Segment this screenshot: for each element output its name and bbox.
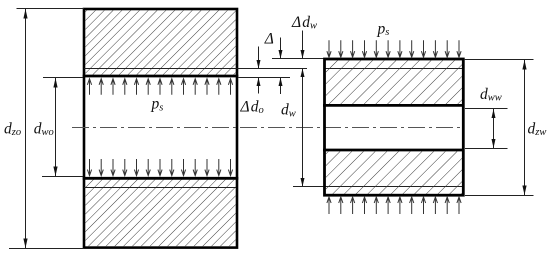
left cylinder outline (84, 9, 237, 248)
dimension d_w line shared with delta-d_w lower arrow (301, 69, 305, 187)
dimension d_ww extension line bottom (465, 148, 508, 150)
dimension delta (total) with outside arrows (279, 38, 283, 95)
pressure arrows down on right piston top (327, 40, 461, 57)
dimension d_zo line with arrowheads (23, 9, 27, 249)
axis centerline (72, 127, 465, 129)
left cylinder worn bore surface top (thick) (83, 75, 239, 78)
right piston original surface top (thin) (326, 68, 464, 70)
dimension d_ww line with arrowheads (492, 109, 496, 149)
left cylinder worn bore surface bottom (thick) (83, 177, 239, 180)
right piston inner edge top (thick) (323, 104, 465, 107)
dimension d_zw line with arrowheads (522, 60, 526, 196)
dimension d_zo extension line top (17, 8, 85, 10)
left original bore line top (thin, extended right) (84, 68, 307, 70)
dimension d_zo extension line bottom (9, 248, 84, 250)
right piston original surface bottom (thin, extended left) (293, 186, 464, 188)
dimension d_ww extension line top (465, 108, 508, 110)
pressure arrows up on right piston bottom (327, 197, 461, 214)
dimension d_wo extension line top (43, 77, 83, 79)
right piston outline (325, 59, 464, 195)
left cylinder top wall hatch (85, 10, 235, 74)
dimension d_zw extension line top (464, 59, 534, 61)
pressure arrows up on left bore top surface (87, 79, 232, 95)
dimension d_wo extension line bottom (42, 176, 83, 178)
dimension d_zw extension line bottom (465, 195, 534, 197)
extension of right piston top edge (line A) (272, 58, 324, 60)
right piston inner edge bottom (thick) (323, 149, 465, 152)
dimension delta-d_w upper segment (301, 31, 305, 59)
extension of left worn bore surface (line C) (238, 77, 290, 79)
left original bore line bottom (thin) (84, 187, 236, 189)
left cylinder bottom wall hatch (85, 180, 235, 247)
right piston bottom wall hatch (326, 152, 462, 195)
dimension d_wo line with arrowheads (53, 78, 57, 177)
svg-text:Δ: Δ (264, 30, 274, 47)
pressure arrows down on left bore bottom surface (87, 159, 232, 176)
dimension delta-d_o with outside arrows (257, 47, 261, 94)
right piston top wall hatch (326, 61, 462, 105)
